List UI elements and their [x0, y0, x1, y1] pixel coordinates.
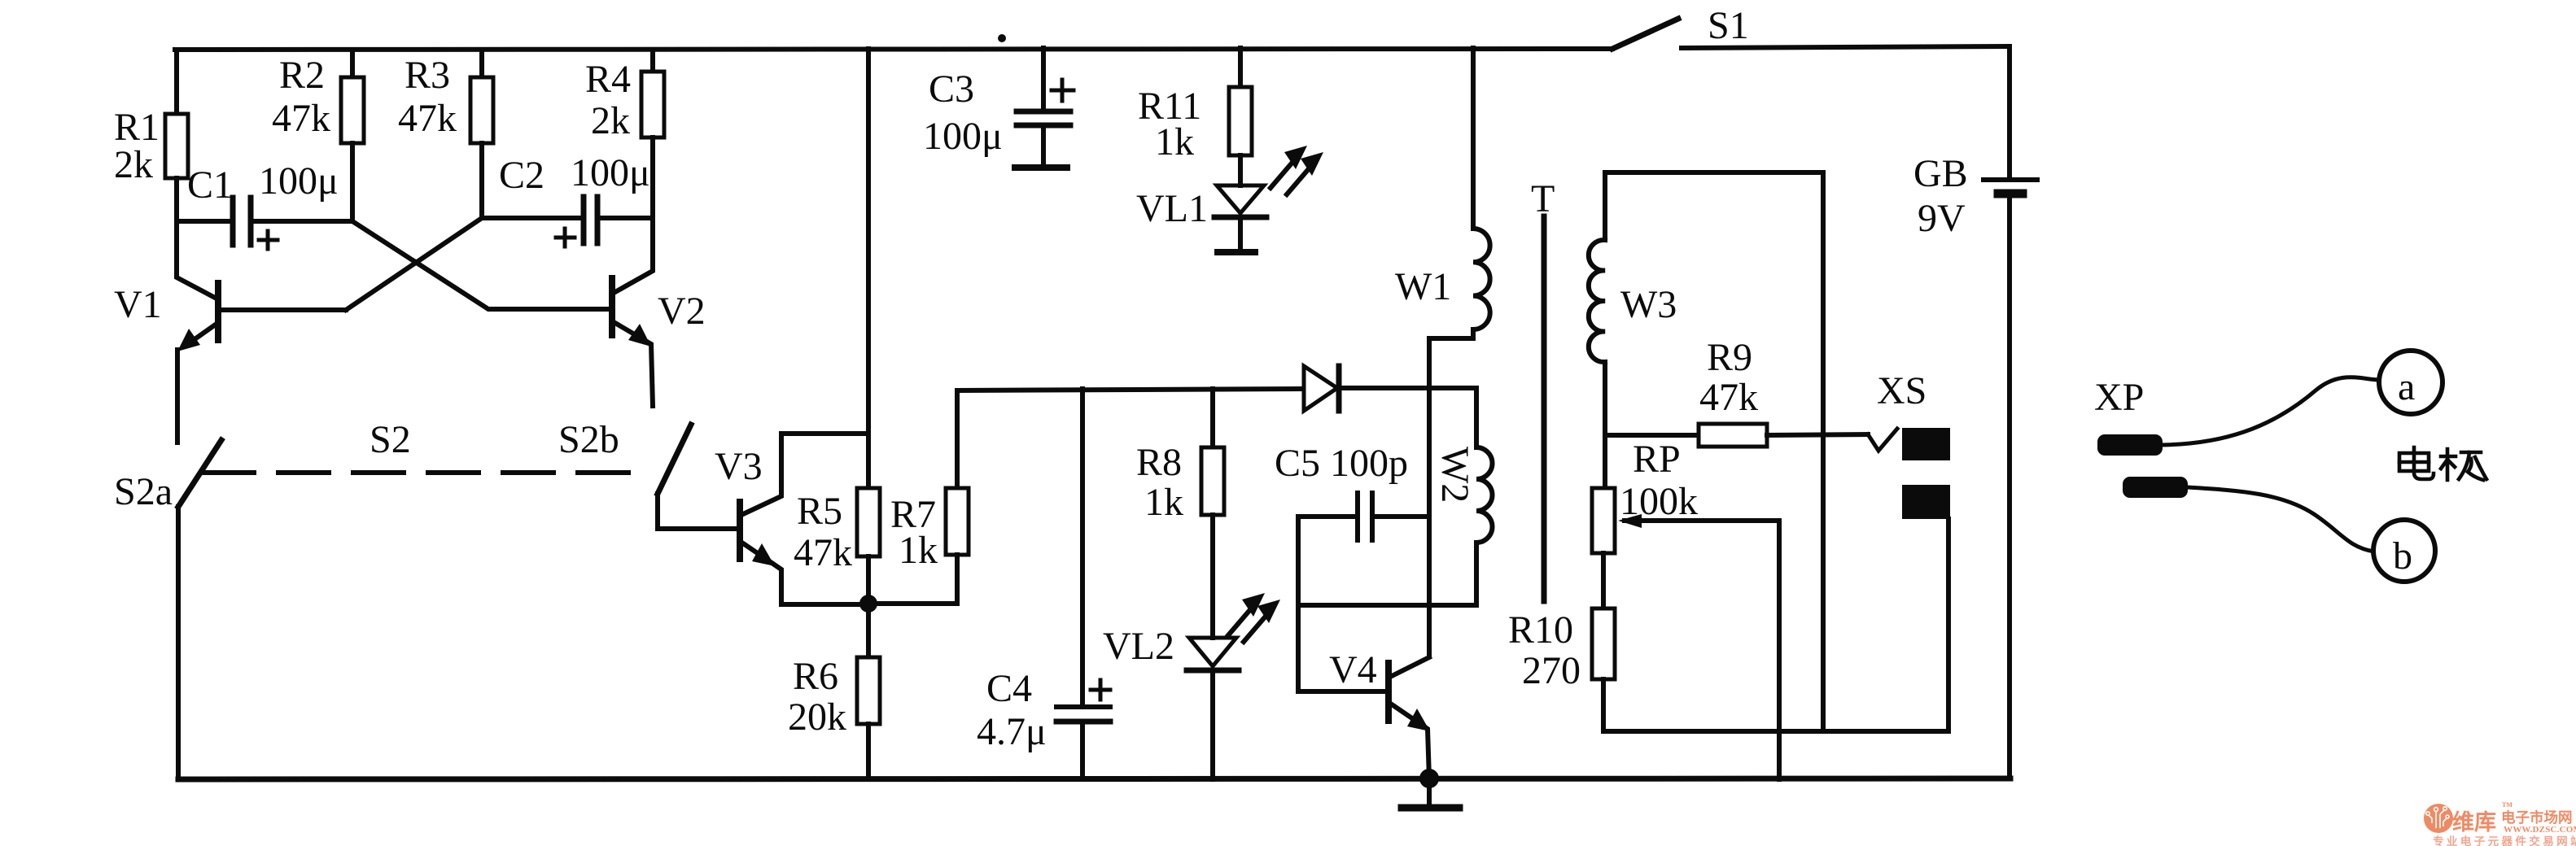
- transistor V3: [715, 434, 868, 604]
- svg-text:100μ: 100μ: [923, 115, 1003, 158]
- svg-text:100μ: 100μ: [259, 159, 339, 203]
- svg-text:S2b: S2b: [558, 418, 619, 461]
- svg-text:C5 100p: C5 100p: [1275, 442, 1408, 485]
- svg-text:C1: C1: [187, 164, 233, 207]
- potentiometer RP: [1592, 438, 1779, 553]
- wire XP bottom to b: [2188, 487, 2374, 552]
- svg-text:S1: S1: [1708, 4, 1749, 47]
- plug XP bottom: [2123, 477, 2188, 498]
- switch S2 dashed link: [203, 418, 651, 473]
- capacitor C2: [482, 151, 653, 246]
- svg-text:47k: 47k: [1699, 376, 1758, 419]
- winding W2: [1433, 388, 1493, 605]
- svg-text:C2: C2: [499, 154, 545, 197]
- svg-text:R3: R3: [405, 54, 450, 97]
- svg-text:T: T: [1531, 177, 1555, 220]
- label electrode: [2399, 447, 2486, 480]
- LED VL1: [1136, 146, 1323, 252]
- svg-text:47k: 47k: [272, 97, 330, 140]
- svg-text:b: b: [2393, 534, 2412, 578]
- wire diode to W2: [1339, 386, 1476, 390]
- svg-text:W3: W3: [1620, 283, 1677, 326]
- svg-text:2k: 2k: [114, 143, 153, 186]
- svg-text:W1: W1: [1395, 265, 1451, 308]
- svg-text:4.7μ: 4.7μ: [977, 710, 1047, 753]
- wire W3 top to right vertical: [1605, 172, 1823, 731]
- wire RP wiper down: [1777, 521, 1782, 779]
- wire loop bottom: [1603, 729, 1948, 734]
- svg-text:R8: R8: [1136, 441, 1182, 484]
- resistor R5: [794, 488, 880, 604]
- wire top rail right: [1682, 46, 2010, 48]
- winding W3: [1589, 172, 1677, 488]
- wire V1 emitter lead: [175, 350, 180, 443]
- wire W1 bottom to V4 collector: [1427, 338, 1432, 656]
- wire R7 to diode: [957, 389, 1302, 390]
- switch S1: [1612, 4, 1749, 49]
- wire XP top to a: [2161, 377, 2378, 445]
- wire left vertical: [176, 507, 181, 779]
- svg-text:GB: GB: [1913, 152, 1968, 195]
- svg-text:WWW.DZSC.COM: WWW.DZSC.COM: [2504, 825, 2576, 835]
- svg-text:1k: 1k: [1144, 481, 1183, 524]
- wire main mid vertical: [866, 49, 871, 488]
- node junction V4 emitter rail: [1419, 769, 1439, 788]
- switch S2b: [558, 418, 737, 529]
- winding W1: [1395, 48, 1490, 338]
- resistor R2: [272, 50, 364, 221]
- wire top rail left: [175, 49, 1612, 50]
- svg-text:270: 270: [1522, 649, 1581, 692]
- LED VL2: [1103, 593, 1280, 779]
- svg-text:W2: W2: [1433, 447, 1476, 503]
- svg-text:R10: R10: [1508, 608, 1573, 652]
- battery GB 9V: [1913, 152, 2037, 240]
- svg-text:V2: V2: [658, 290, 706, 333]
- svg-text:维库: 维库: [2452, 810, 2496, 835]
- terminal b: [2373, 520, 2435, 582]
- svg-text:S2a: S2a: [114, 470, 173, 513]
- wire W2 bottom link: [1298, 603, 1476, 608]
- svg-text:9V: 9V: [1918, 197, 1966, 240]
- node junction R5 R6 R7 V3: [859, 595, 877, 613]
- switch S2a: [114, 440, 221, 513]
- svg-text:VL1: VL1: [1136, 187, 1208, 230]
- capacitor C1: [177, 159, 352, 249]
- svg-text:100k: 100k: [1620, 480, 1698, 523]
- diode VD: [1304, 366, 1339, 411]
- plug XP top: [2094, 376, 2163, 456]
- svg-text:电子市场网: 电子市场网: [2501, 809, 2573, 826]
- resistor R6: [788, 604, 880, 779]
- transistor V2: [609, 218, 706, 406]
- transistor V4: [1298, 648, 1430, 779]
- svg-text:R5: R5: [797, 490, 842, 533]
- svg-text:1k: 1k: [899, 529, 938, 572]
- svg-text:XS: XS: [1877, 369, 1927, 412]
- svg-text:a: a: [2398, 365, 2415, 408]
- svg-text:20k: 20k: [788, 696, 846, 739]
- capacitor C4: [977, 389, 1110, 779]
- resistor R4: [585, 50, 664, 218]
- plug contact XS: [1868, 369, 1950, 731]
- svg-text:R9: R9: [1707, 336, 1752, 379]
- wire battery bottom lead: [2007, 198, 2012, 778]
- wire cross coupling C2 to V1 base: [346, 218, 482, 310]
- resistor R10: [1508, 553, 1615, 731]
- svg-text:47k: 47k: [398, 97, 457, 140]
- capacitor C5: [1275, 442, 1429, 540]
- wire C5 left vertical: [1296, 517, 1301, 691]
- svg-text:R2: R2: [279, 54, 325, 97]
- svg-text:R6: R6: [793, 655, 838, 698]
- svg-text:S2: S2: [370, 418, 411, 461]
- resistor R11: [1138, 48, 1252, 185]
- svg-text:R4: R4: [585, 58, 631, 101]
- svg-text:TM: TM: [2502, 801, 2513, 809]
- resistor R1: [114, 50, 188, 221]
- svg-text:V3: V3: [715, 445, 763, 488]
- resistor R7: [868, 390, 969, 604]
- svg-text:47k: 47k: [794, 531, 852, 574]
- svg-text:2k: 2k: [591, 99, 630, 142]
- svg-text:C4: C4: [986, 667, 1032, 710]
- watermark logo: [2424, 801, 2576, 846]
- svg-text:XP: XP: [2094, 376, 2144, 419]
- svg-text:C3: C3: [929, 68, 974, 111]
- capacitor C3: [923, 48, 1074, 168]
- resistor R3: [398, 50, 493, 218]
- svg-text:1k: 1k: [1155, 120, 1194, 164]
- svg-text:VL2: VL2: [1103, 625, 1174, 668]
- svg-text:专业电子元器件交易网站: 专业电子元器件交易网站: [2433, 835, 2576, 846]
- transformer core T: [1531, 177, 1555, 601]
- svg-text:V4: V4: [1329, 648, 1377, 691]
- wire bottom rail: [178, 778, 2010, 779]
- wire battery top lead: [2007, 46, 2012, 177]
- node speck above rail: [998, 34, 1006, 42]
- wire cross coupling C1 to V2 base: [352, 221, 607, 309]
- ground: [1402, 778, 1459, 808]
- resistor R9: [1605, 336, 1868, 447]
- svg-text:100μ: 100μ: [571, 151, 650, 194]
- transistor V1: [114, 221, 346, 351]
- terminal a: [2379, 351, 2443, 414]
- svg-text:RP: RP: [1633, 438, 1681, 481]
- resistor R8: [1136, 389, 1224, 638]
- svg-text:V1: V1: [114, 283, 162, 326]
